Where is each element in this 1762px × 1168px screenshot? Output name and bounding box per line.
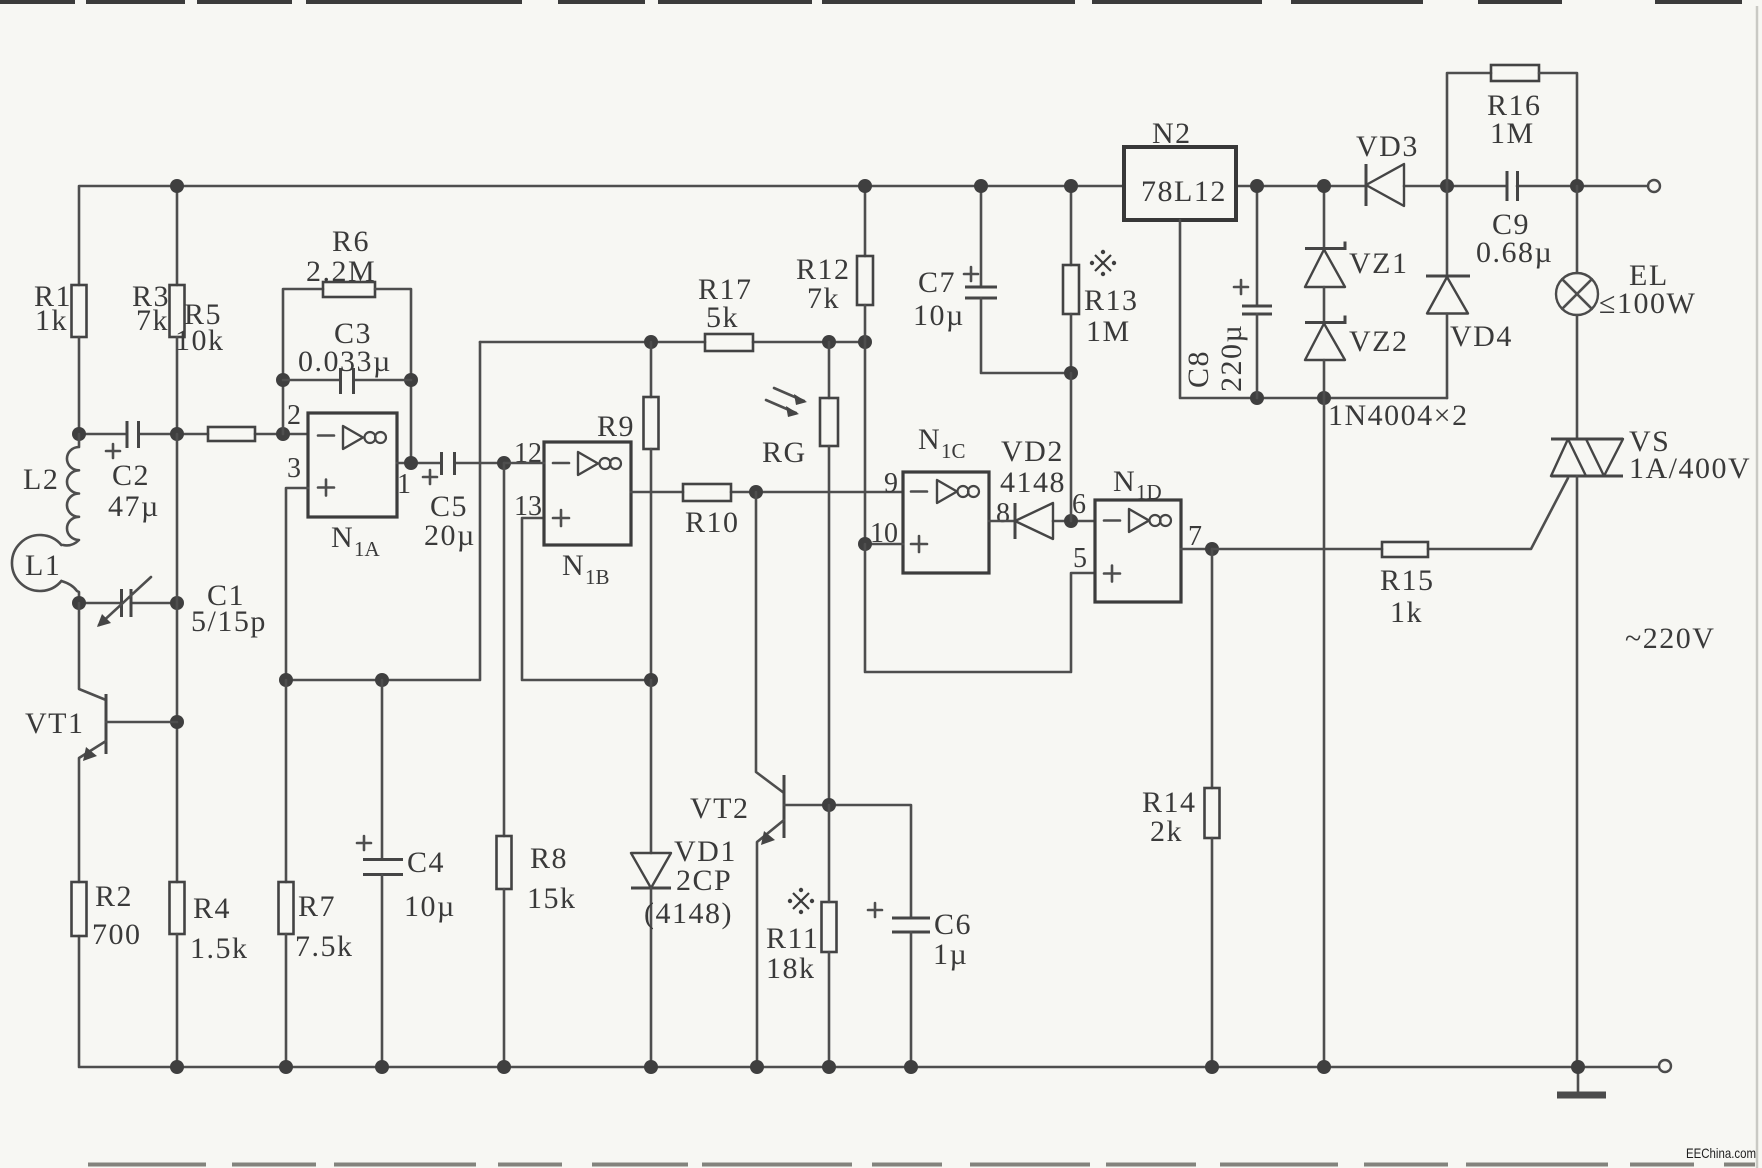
svg-text:7: 7 [1188, 521, 1202, 552]
svg-text:C6: C6 [934, 908, 972, 941]
svg-text:R13: R13 [1084, 284, 1139, 317]
photoresistor RG [762, 342, 838, 805]
zener VZ1 [1305, 186, 1409, 287]
svg-text:1: 1 [397, 469, 411, 500]
junction [1317, 391, 1331, 405]
junction [644, 1060, 658, 1074]
op-amp N1A [308, 413, 397, 561]
svg-text:R8: R8 [530, 842, 568, 875]
svg-text:R2: R2 [95, 880, 133, 913]
capacitor C9 [1476, 171, 1553, 269]
junction [1250, 391, 1264, 405]
wire N1C feedback to pin5 [865, 544, 1095, 672]
capacitor C7 [913, 186, 1071, 373]
capacitor C1 (variable) [79, 577, 267, 638]
svg-text:C7: C7 [918, 266, 956, 299]
junction [170, 596, 184, 610]
junction [750, 1060, 764, 1074]
svg-text:VZ1: VZ1 [1349, 247, 1409, 280]
resistor R5 [175, 298, 255, 441]
resistor R1 [34, 280, 87, 434]
junction [276, 373, 290, 387]
resistor R8 [497, 463, 577, 1067]
svg-text:7k: 7k [136, 304, 169, 337]
svg-text:9: 9 [884, 468, 898, 499]
junction [72, 596, 86, 610]
regulator N2 78L12 [1124, 117, 1236, 220]
svg-text:2k: 2k [1150, 815, 1183, 848]
resistor R6 [306, 225, 376, 297]
svg-text:C4: C4 [407, 846, 445, 879]
capacitor C6 [868, 903, 972, 1067]
svg-text:VD4: VD4 [1450, 320, 1513, 353]
wire feedback left branch [283, 289, 323, 434]
bottom rail terminal [1659, 1060, 1671, 1072]
junction [276, 427, 290, 441]
svg-text:1C: 1C [941, 439, 966, 463]
junction [497, 1060, 511, 1074]
wire bias node row y=680 [286, 342, 480, 680]
svg-text:L2: L2 [23, 463, 59, 496]
diode VD4 [1426, 186, 1513, 398]
svg-text:1M: 1M [1086, 315, 1131, 348]
svg-text:0.68µ: 0.68µ [1476, 236, 1553, 269]
svg-text:VZ2: VZ2 [1349, 325, 1409, 358]
svg-text:R6: R6 [332, 225, 370, 258]
svg-text:7k: 7k [807, 282, 840, 315]
resistor R3 [132, 186, 185, 434]
junction [1317, 179, 1331, 193]
op-amp N1B [544, 442, 631, 589]
svg-text:1M: 1M [1490, 117, 1535, 150]
resistor R12 [796, 186, 873, 342]
junction [170, 1060, 184, 1074]
junction [822, 798, 836, 812]
wire feedback right branch [375, 289, 411, 463]
junction [1440, 179, 1454, 193]
capacitor C4 [357, 680, 456, 1067]
junction [1064, 179, 1078, 193]
svg-text:1k: 1k [35, 304, 68, 337]
junction [858, 537, 872, 551]
wire N1B output [631, 491, 903, 494]
svg-text:R4: R4 [193, 892, 231, 925]
reference mark for R11 [788, 888, 814, 914]
svg-text:18k: 18k [766, 952, 816, 985]
junction [1570, 179, 1584, 193]
op-amp N1D [1095, 465, 1181, 602]
svg-text:0.033µ: 0.033µ [298, 345, 392, 378]
triac VS [1551, 425, 1751, 1067]
svg-text:1N4004×2: 1N4004×2 [1328, 399, 1469, 432]
svg-text:N: N [562, 549, 585, 582]
junction [404, 456, 418, 470]
junction [974, 179, 988, 193]
junction [1571, 1060, 1585, 1074]
junction [822, 1060, 836, 1074]
op-amp N1C [903, 423, 989, 573]
junction [170, 715, 184, 729]
svg-text:C2: C2 [112, 459, 150, 492]
wire R12 column down to pin10 [864, 342, 867, 544]
coil L1 [12, 535, 79, 603]
svg-text:L1: L1 [25, 549, 61, 582]
ground [1557, 1067, 1606, 1095]
svg-text:5: 5 [1073, 543, 1087, 574]
svg-text:15k: 15k [527, 882, 577, 915]
wire R3 column continuation [176, 434, 179, 882]
resistor R7 [279, 680, 354, 1067]
wire VT2 base row y=805 [784, 805, 911, 918]
svg-text:≤100W: ≤100W [1599, 287, 1696, 320]
resistor R11 [766, 805, 837, 1067]
svg-text:R15: R15 [1380, 564, 1435, 597]
junction [1205, 1060, 1219, 1074]
svg-text:VT1: VT1 [25, 707, 85, 740]
svg-text:VD3: VD3 [1356, 130, 1419, 163]
capacitor C5 [423, 452, 476, 552]
junction [904, 1060, 918, 1074]
svg-text:VD2: VD2 [1001, 435, 1064, 468]
svg-text:R10: R10 [685, 506, 740, 539]
wire zener column to bottom rail [1323, 398, 1326, 1067]
svg-text:1A: 1A [354, 537, 381, 561]
svg-text:220µ: 220µ [1215, 324, 1248, 392]
svg-text:1.5k: 1.5k [190, 932, 249, 965]
svg-text:7.5k: 7.5k [295, 930, 354, 963]
junction [375, 673, 389, 687]
wire N1D output pin7 [1181, 548, 1212, 551]
wire N1A pin3 [286, 488, 308, 680]
wire N1A output [397, 462, 504, 465]
resistor R16 [1447, 65, 1577, 186]
svg-text:1k: 1k [1390, 596, 1423, 629]
junction [858, 335, 872, 349]
lamp EL [1556, 186, 1696, 439]
svg-text:R11: R11 [766, 922, 819, 955]
junction [1064, 366, 1078, 380]
bottom ground rail [79, 936, 1659, 1067]
wire N1B pin13 branch [522, 518, 651, 680]
junction [404, 373, 418, 387]
svg-text:1B: 1B [585, 565, 610, 589]
capacitor C8 [1182, 186, 1272, 398]
svg-text:4148: 4148 [1000, 466, 1066, 499]
svg-text:8: 8 [996, 498, 1010, 529]
svg-text:5k: 5k [706, 301, 739, 334]
transistor VT2 [690, 492, 784, 1067]
junction [375, 1060, 389, 1074]
resistor R4 [170, 882, 249, 1067]
svg-text:1A/400V: 1A/400V [1629, 452, 1751, 485]
junction [1250, 179, 1264, 193]
junction [644, 335, 658, 349]
svg-text:2: 2 [287, 400, 301, 431]
junction [749, 485, 763, 499]
junction [72, 427, 86, 441]
svg-text:EEChina.com: EEChina.com [1686, 1145, 1756, 1161]
wire N1C output [989, 520, 1095, 523]
resistor R9 [597, 342, 659, 680]
junction [644, 673, 658, 687]
junction [497, 456, 511, 470]
svg-text:1D: 1D [1136, 480, 1162, 504]
capacitor C2 [106, 421, 160, 523]
svg-text:700: 700 [92, 918, 142, 951]
resistor R13 [1063, 186, 1139, 373]
svg-text:N: N [918, 423, 941, 456]
svg-text:20µ: 20µ [424, 519, 476, 552]
junction [1205, 542, 1219, 556]
resistor R2 [72, 880, 142, 951]
diode VD1 [631, 680, 737, 1067]
svg-text:10k: 10k [175, 324, 225, 357]
resistor R14 [1142, 549, 1220, 1067]
transistor VT1 [25, 603, 177, 882]
svg-text:78L12: 78L12 [1141, 175, 1227, 208]
junction [279, 1060, 293, 1074]
svg-text:R9: R9 [597, 410, 635, 443]
capacitor C3 [283, 317, 411, 394]
svg-text:13: 13 [514, 491, 542, 522]
wire N1B pin12 [504, 462, 544, 465]
top supply rail [79, 186, 1648, 285]
junction [1317, 1060, 1331, 1074]
node row wire y=434 [79, 433, 308, 436]
diode VD3 [1356, 130, 1419, 206]
resistor R10 [683, 484, 740, 539]
resistor R15 [1380, 542, 1435, 629]
svg-text:2.2M: 2.2M [306, 255, 376, 288]
svg-text:C8: C8 [1182, 350, 1215, 388]
wire bias line y=342 [480, 341, 865, 344]
top rail terminal [1648, 180, 1660, 192]
junction [279, 673, 293, 687]
svg-text:N2: N2 [1152, 117, 1192, 150]
svg-text:3: 3 [287, 453, 301, 484]
inductor L2 [23, 434, 79, 545]
junction [170, 427, 184, 441]
diode VD2 [1000, 435, 1066, 539]
wire R13 node to VD2 node [1070, 373, 1073, 521]
svg-text:2CP: 2CP [676, 864, 732, 897]
svg-text:VT2: VT2 [690, 792, 750, 825]
svg-text:R7: R7 [298, 890, 336, 923]
svg-text:(4148): (4148) [644, 897, 733, 930]
junction [858, 179, 872, 193]
svg-text:5/15p: 5/15p [191, 605, 267, 638]
svg-text:N: N [1113, 465, 1136, 498]
wire triac gate [1212, 478, 1568, 549]
svg-text:N: N [331, 521, 354, 554]
svg-text:10µ: 10µ [913, 299, 965, 332]
svg-text:RG: RG [762, 436, 807, 469]
junction [170, 179, 184, 193]
svg-text:12: 12 [514, 438, 542, 469]
wire N1C pin10 [865, 543, 903, 546]
svg-text:~220V: ~220V [1625, 622, 1715, 655]
junction [822, 335, 836, 349]
svg-text:10µ: 10µ [404, 890, 456, 923]
resistor R17 [698, 273, 753, 351]
junction [1064, 514, 1078, 528]
svg-text:47µ: 47µ [108, 490, 160, 523]
svg-text:6: 6 [1072, 489, 1086, 520]
zener VZ2 [1305, 287, 1409, 398]
reference mark for R13 [1090, 250, 1116, 276]
svg-text:1µ: 1µ [933, 938, 968, 971]
wire N2 ground pin [1180, 220, 1447, 398]
